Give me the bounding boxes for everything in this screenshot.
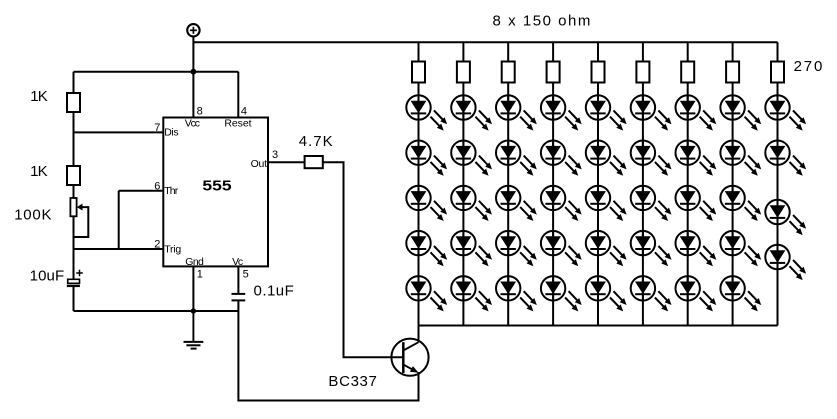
capacitor 10uF electrolytic	[67, 270, 83, 286]
wire: LED column 3 vertical	[507, 42, 509, 325]
svg-text:7: 7	[154, 122, 160, 134]
LED column 6 row 4	[631, 231, 672, 266]
svg-text:100K: 100K	[14, 207, 51, 224]
svg-text:270: 270	[794, 58, 823, 75]
resistor 150 ohm column 7	[681, 62, 694, 83]
wire: left rail below 10uF	[73, 286, 75, 311]
wire: Dis tap (pin 7)	[74, 131, 164, 133]
svg-text:Thr: Thr	[164, 185, 179, 197]
wire: 4.7K to transistor base	[323, 162, 404, 357]
ground symbol	[184, 311, 204, 349]
svg-text:555: 555	[202, 178, 231, 194]
LED column 1 row 4	[406, 231, 447, 266]
wire: Thr to Trig connector	[118, 191, 120, 249]
resistor 1K (top)	[67, 93, 80, 112]
wire: pin 1 Gnd down	[192, 266, 194, 311]
wire: LED column 1 vertical	[418, 42, 420, 325]
LED column 2 row 3	[451, 186, 492, 221]
svg-text:1K: 1K	[30, 88, 48, 105]
svg-text:3: 3	[272, 149, 278, 161]
LED column 3 row 2	[496, 141, 537, 176]
LED column 6 row 2	[631, 141, 672, 176]
LED column 2 row 5	[451, 276, 492, 311]
svg-text:4: 4	[241, 106, 247, 118]
capacitor 0.1uF	[232, 294, 246, 301]
wire: Thr tap (pin 6)	[119, 190, 164, 192]
resistor 150 ohm column 5	[592, 62, 605, 83]
LED column 4 row 5	[541, 276, 582, 311]
wire: LED column 6 vertical	[642, 42, 644, 325]
wire: LED column 8 vertical	[732, 42, 734, 325]
svg-text:8: 8	[197, 106, 203, 118]
wire: 0.1uF to bottom wire and to emitter	[238, 301, 418, 400]
LED column 1 row 1	[406, 95, 447, 130]
wire: Trig line (pin 2)	[74, 248, 164, 250]
LED column 3 row 1	[496, 95, 537, 130]
LED column 8 row 3	[720, 186, 761, 221]
LED column 7 row 1	[676, 95, 717, 130]
svg-text:10uF: 10uF	[30, 268, 65, 285]
LED column 1 row 3	[406, 186, 447, 221]
wire: pin 5 Vc down to 0.1uF	[237, 266, 239, 293]
wire: LED column 7 vertical	[687, 42, 689, 325]
wire: LED column 9 vertical	[777, 42, 779, 325]
wire: pin 3 Out to 4.7K	[268, 161, 305, 163]
LED column 5 row 1	[586, 95, 627, 130]
potentiometer 100K body	[70, 198, 76, 216]
wire: LED column 2 vertical	[462, 42, 464, 325]
svg-text:Gnd: Gnd	[185, 256, 204, 268]
LED column 9 row 4	[765, 245, 806, 280]
LED column 1 row 5	[406, 276, 447, 311]
wire: collector up to LED array bottom rail	[418, 326, 420, 343]
svg-text:1K: 1K	[30, 163, 48, 180]
resistor 270 ohm column 9	[771, 62, 784, 83]
wire: LED array bottom rail	[419, 325, 778, 327]
svg-text:BC337: BC337	[328, 373, 377, 390]
LED column 5 row 3	[586, 186, 627, 221]
junction dot on ground bus	[191, 308, 196, 313]
resistor 150 ohm column 2	[457, 62, 470, 83]
LED column 3 row 3	[496, 186, 537, 221]
wire: power symbol down to 555 pin 8 (Vcc)	[192, 37, 194, 118]
resistor 150 ohm column 1	[412, 62, 425, 83]
LED column 8 row 1	[720, 95, 761, 130]
LED column 5 row 2	[586, 141, 627, 176]
LED column 7 row 5	[676, 276, 717, 311]
svg-text:2: 2	[154, 239, 160, 251]
LED column 8 row 4	[720, 231, 761, 266]
LED column 3 row 5	[496, 276, 537, 311]
LED column 1 row 2	[406, 141, 447, 176]
LED column 7 row 3	[676, 186, 717, 221]
wire: left rail top segment	[73, 72, 75, 280]
LED column 2 row 4	[451, 231, 492, 266]
LED column 4 row 3	[541, 186, 582, 221]
potentiometer wiper arrow	[74, 204, 89, 238]
resistor 4.7K	[305, 156, 323, 168]
svg-text:Dis: Dis	[164, 127, 178, 139]
LED column 6 row 5	[631, 276, 672, 311]
svg-text:6: 6	[154, 180, 160, 192]
LED column 7 row 4	[676, 231, 717, 266]
LED column 9 row 2	[765, 141, 806, 176]
LED column 2 row 2	[451, 141, 492, 176]
LED column 9 row 3	[765, 200, 806, 235]
resistor 150 ohm column 3	[502, 62, 515, 83]
LED column 4 row 4	[541, 231, 582, 266]
resistor 150 ohm column 4	[547, 62, 560, 83]
transistor Q1 BC337	[391, 339, 428, 376]
LED column 6 row 3	[631, 186, 672, 221]
LED column 4 row 1	[541, 95, 582, 130]
resistor 1K (second)	[67, 166, 80, 185]
LED column 6 row 1	[631, 95, 672, 130]
LED column 5 row 5	[586, 276, 627, 311]
svg-text:Trig: Trig	[164, 243, 181, 255]
wire: pin 4 drop	[237, 72, 239, 118]
svg-text:5: 5	[243, 268, 249, 280]
svg-text:Out: Out	[251, 158, 267, 170]
LED column 7 row 2	[676, 141, 717, 176]
LED column 5 row 4	[586, 231, 627, 266]
resistor 150 ohm column 6	[636, 62, 649, 83]
wire: LED column 5 vertical	[597, 42, 599, 325]
LED column 8 row 5	[720, 276, 761, 311]
wire: LED column 4 vertical	[552, 42, 554, 325]
LED column 3 row 4	[496, 231, 537, 266]
power supply + symbol	[187, 24, 199, 36]
svg-text:Vc: Vc	[232, 256, 243, 268]
LED column 4 row 2	[541, 141, 582, 176]
svg-text:0.1uF: 0.1uF	[254, 283, 294, 300]
svg-text:Vcc: Vcc	[185, 118, 200, 130]
svg-text:Reset: Reset	[224, 118, 251, 130]
wire: top positive supply rail	[193, 41, 777, 43]
wire: branch to left rail and to pin 4	[74, 71, 239, 73]
svg-text:1: 1	[197, 268, 203, 280]
svg-text:4.7K: 4.7K	[299, 133, 333, 150]
LED column 2 row 1	[451, 95, 492, 130]
resistor 150 ohm column 8	[726, 62, 739, 83]
LED column 9 row 1	[765, 95, 806, 130]
junction dot at supply branch	[191, 69, 197, 75]
op-amp/timer U1 555 box	[163, 118, 268, 267]
LED column 8 row 2	[720, 141, 761, 176]
wire: ground bus	[74, 310, 239, 312]
